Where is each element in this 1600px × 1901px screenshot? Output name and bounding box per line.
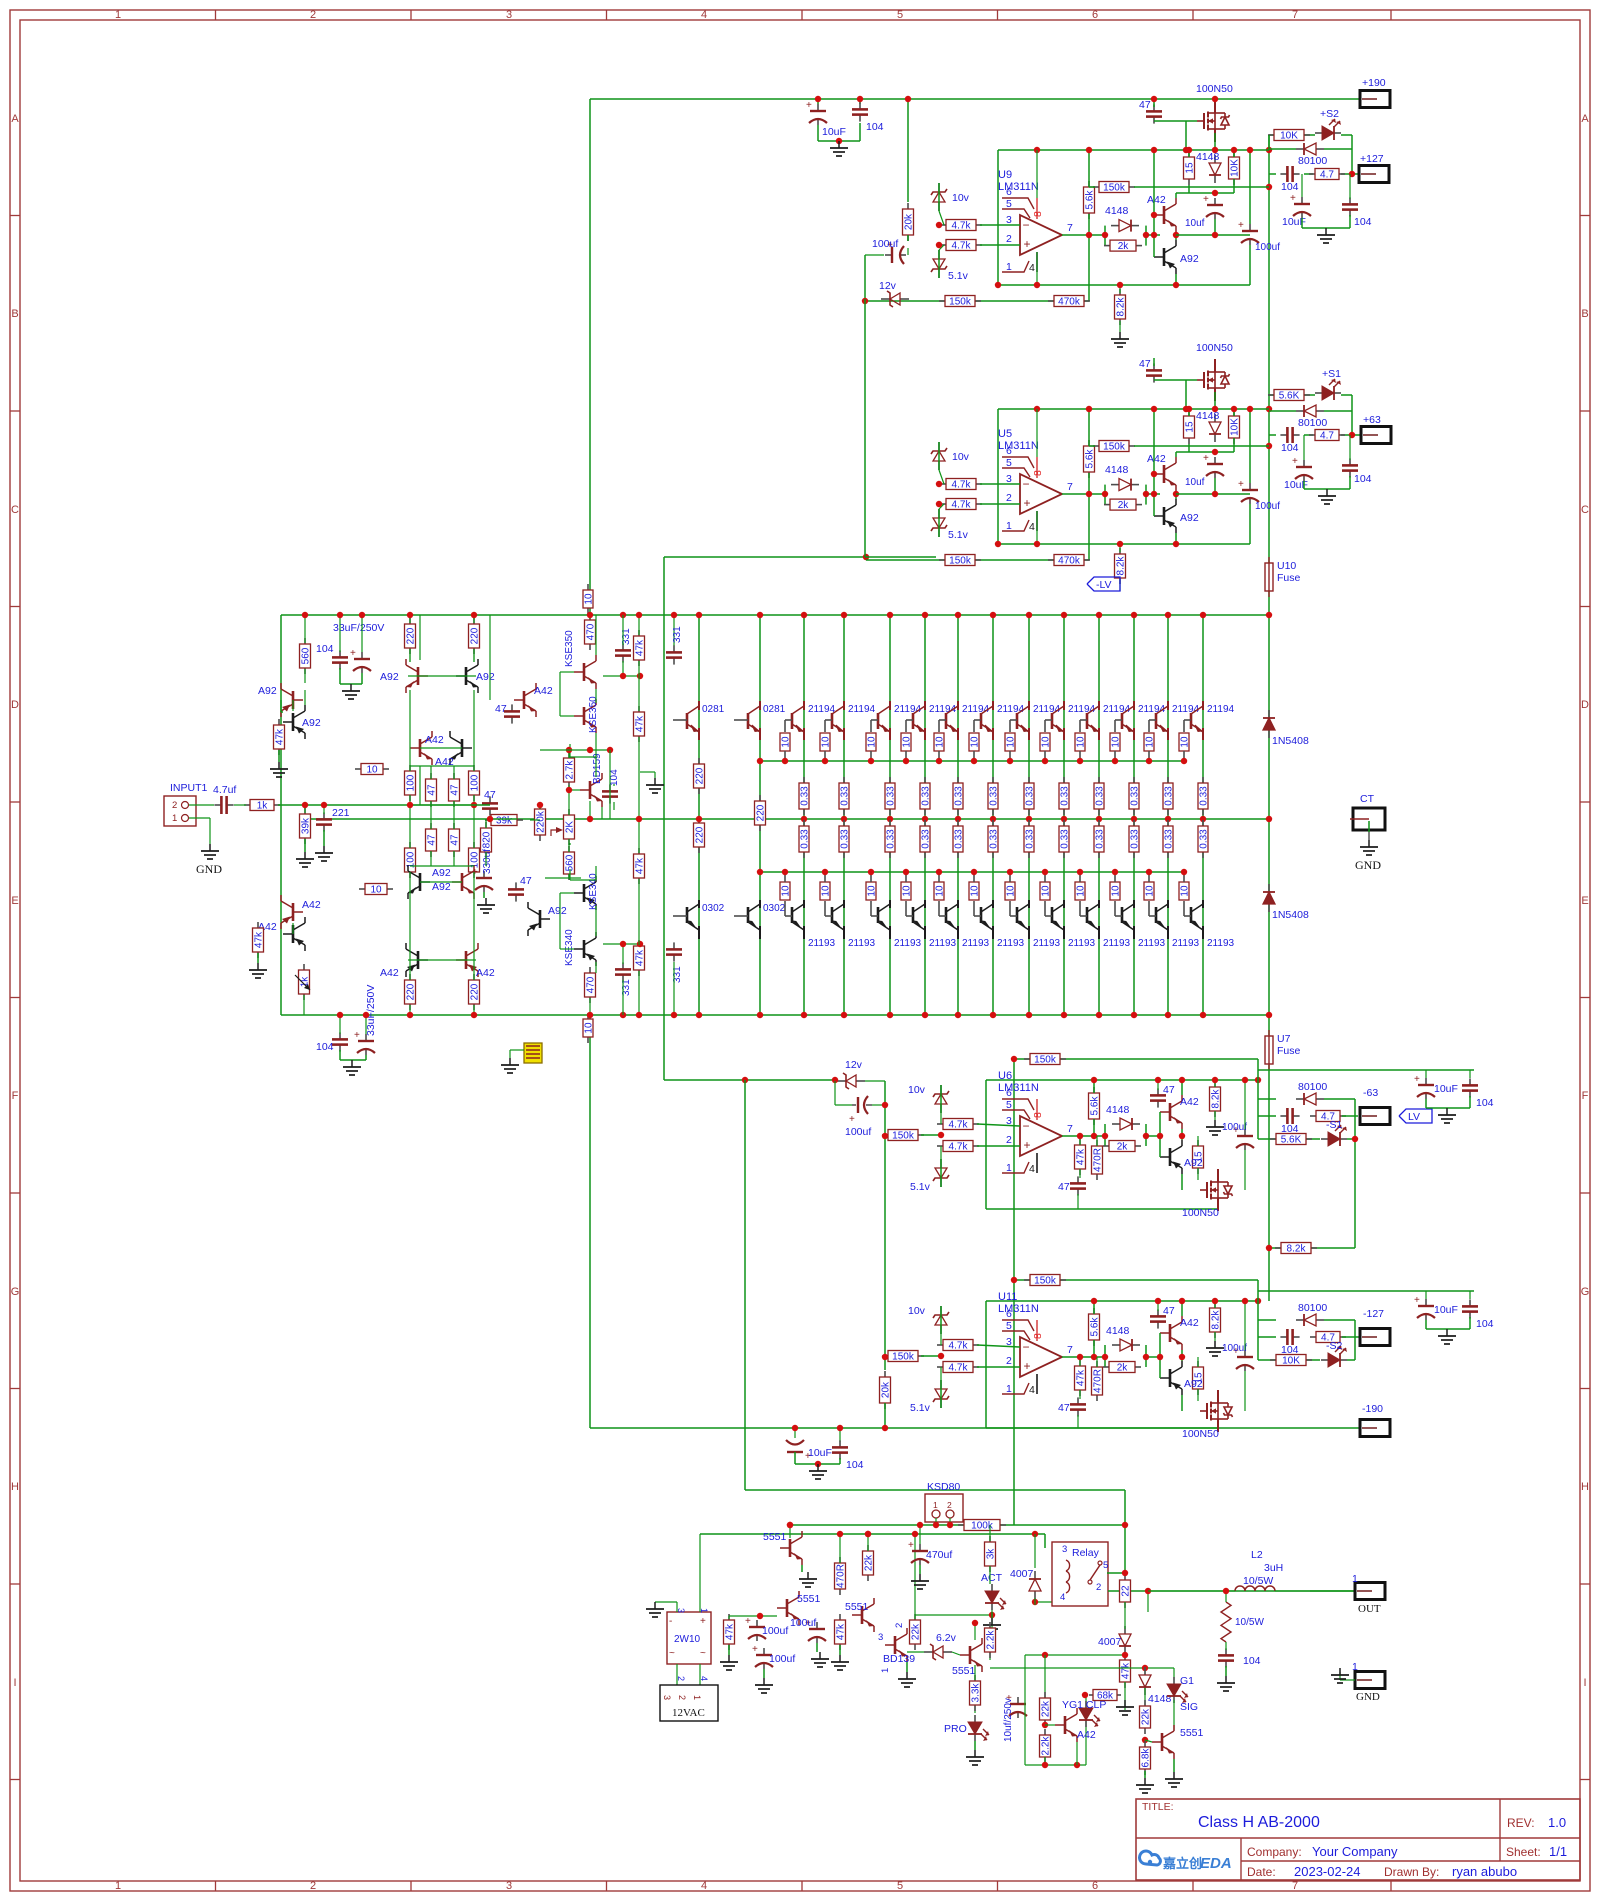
svg-text:7: 7 bbox=[1067, 1123, 1073, 1135]
wire bbox=[560, 671, 574, 673]
svg-text:4007: 4007 bbox=[1010, 1568, 1034, 1580]
wire bbox=[1063, 615, 1065, 1015]
wire bbox=[1301, 218, 1303, 228]
wire bbox=[1147, 1591, 1149, 1612]
svg-text:A42: A42 bbox=[380, 967, 399, 979]
svg-text:220: 220 bbox=[406, 983, 417, 1000]
svg-text:220: 220 bbox=[695, 826, 706, 843]
svg-text:10: 10 bbox=[1145, 885, 1156, 897]
wire bbox=[1062, 1356, 1105, 1358]
wire bbox=[304, 805, 306, 813]
polarized capacitor bbox=[763, 1648, 765, 1655]
wire bbox=[1093, 1301, 1095, 1314]
junction bbox=[822, 758, 828, 764]
wire bbox=[974, 1623, 976, 1640]
wire bbox=[1202, 615, 1204, 1015]
ground bbox=[350, 684, 352, 691]
wire bbox=[1045, 1724, 1055, 1726]
polarized capacitor bbox=[885, 254, 892, 256]
resistor 0.33 bbox=[889, 820, 891, 826]
transistor A42 bbox=[406, 943, 428, 977]
svg-text:+: + bbox=[745, 1616, 751, 1627]
junction bbox=[1102, 491, 1108, 497]
polarized capacitor 100uf left U6 bbox=[857, 1097, 859, 1113]
junction bbox=[1212, 491, 1218, 497]
ground bbox=[257, 963, 259, 970]
junction bbox=[1026, 612, 1032, 618]
wire bbox=[790, 1524, 1125, 1526]
junction bbox=[990, 816, 996, 822]
relay contact bbox=[1090, 1565, 1100, 1580]
junction bbox=[587, 612, 593, 618]
wire bbox=[1077, 1194, 1079, 1209]
junction bbox=[620, 1012, 626, 1018]
resistor 10 col10 bottom bbox=[1115, 915, 1122, 917]
svg-text:21193: 21193 bbox=[1033, 938, 1061, 949]
diode 4148 bbox=[1111, 225, 1119, 227]
svg-text:3: 3 bbox=[662, 1695, 672, 1700]
svg-text:5: 5 bbox=[1006, 457, 1012, 469]
wire bbox=[818, 140, 860, 142]
svg-text:10K: 10K bbox=[1280, 131, 1298, 142]
wire bbox=[1157, 1080, 1159, 1090]
svg-text:22: 22 bbox=[1121, 1585, 1132, 1597]
polarized capacitor bbox=[816, 1622, 818, 1629]
junction bbox=[787, 1522, 793, 1528]
wire bbox=[473, 872, 475, 980]
capacitor bbox=[1077, 1176, 1079, 1183]
junction bbox=[1255, 1077, 1261, 1083]
junction bbox=[922, 1012, 928, 1018]
capacitor bbox=[1157, 1088, 1159, 1095]
wire bbox=[622, 615, 624, 645]
svg-text:1N5408: 1N5408 bbox=[1272, 909, 1309, 921]
ground bbox=[1368, 840, 1370, 847]
wire bbox=[409, 649, 411, 662]
resistor 10 col6 top bbox=[974, 719, 981, 721]
svg-text:A92: A92 bbox=[1180, 512, 1199, 524]
fuse U7 bbox=[1268, 1030, 1270, 1070]
transistor NPN bbox=[1055, 1708, 1077, 1742]
svg-text:150k: 150k bbox=[892, 1352, 915, 1363]
junction bbox=[1077, 758, 1083, 764]
polarized capacitor bbox=[483, 871, 485, 878]
svg-text:A42: A42 bbox=[1180, 1317, 1199, 1329]
resistor 15 bbox=[1197, 1361, 1199, 1367]
wire bbox=[420, 881, 462, 883]
svg-text:+: + bbox=[1023, 496, 1030, 510]
wire bbox=[1233, 409, 1235, 416]
resistor 10 bbox=[905, 881, 907, 883]
junction bbox=[1352, 1136, 1358, 1142]
wire bbox=[998, 408, 1269, 410]
resistor 10 bbox=[1148, 732, 1150, 734]
svg-text:7: 7 bbox=[1292, 1880, 1298, 1892]
wire bbox=[1181, 1350, 1183, 1361]
transistor 21193 bbox=[912, 907, 915, 923]
svg-text:104: 104 bbox=[1281, 181, 1299, 193]
svg-text:22k: 22k bbox=[1041, 1700, 1052, 1717]
svg-text:+: + bbox=[752, 1644, 758, 1655]
svg-text:10: 10 bbox=[867, 736, 878, 748]
wire bbox=[1175, 193, 1177, 198]
svg-text:C: C bbox=[11, 504, 19, 516]
svg-text:A: A bbox=[11, 113, 19, 125]
wire bbox=[589, 1036, 591, 1428]
junction bbox=[955, 612, 961, 618]
wire bbox=[940, 1306, 942, 1334]
svg-text:A92: A92 bbox=[1180, 253, 1199, 265]
junction bbox=[1086, 147, 1092, 153]
wire bbox=[1302, 227, 1350, 229]
resistor 10 col1 top bbox=[785, 719, 792, 721]
svg-text:10: 10 bbox=[902, 736, 913, 748]
svg-text:8: 8 bbox=[1032, 1112, 1044, 1118]
wire bbox=[1349, 174, 1351, 199]
svg-text:470k: 470k bbox=[1058, 556, 1081, 567]
ground bbox=[1144, 1778, 1146, 1785]
junction bbox=[1091, 1133, 1097, 1139]
wire bbox=[473, 1005, 475, 1015]
junction bbox=[1091, 1298, 1097, 1304]
svg-text:D: D bbox=[1581, 699, 1589, 711]
resistor 8.2k bbox=[1275, 1247, 1281, 1249]
wire bbox=[568, 750, 570, 758]
svg-text:+: + bbox=[806, 100, 812, 111]
transistor A92 bbox=[456, 659, 478, 693]
wire bbox=[1268, 1015, 1270, 1035]
wire bbox=[1085, 1695, 1087, 1765]
svg-text:0.33: 0.33 bbox=[1130, 786, 1141, 806]
junction bbox=[1151, 406, 1157, 412]
svg-text:OUT: OUT bbox=[1358, 1603, 1381, 1615]
junction bbox=[1096, 612, 1102, 618]
wire bbox=[1354, 1099, 1356, 1139]
resistor 10 bbox=[1009, 732, 1011, 734]
ground bbox=[1446, 1329, 1448, 1336]
resistor 47 bbox=[453, 773, 455, 779]
svg-text:−: − bbox=[1022, 1340, 1029, 1354]
junction bbox=[1151, 96, 1157, 102]
svg-text:EDA: EDA bbox=[1200, 1855, 1232, 1872]
resistor 10 bbox=[1183, 732, 1185, 734]
transistor 21193 bbox=[1190, 907, 1193, 923]
transistor A42 bbox=[514, 683, 536, 717]
wire bbox=[1153, 150, 1155, 257]
resistor 47 bbox=[430, 773, 432, 779]
LED bbox=[1079, 1701, 1100, 1727]
svg-text:KSE350: KSE350 bbox=[564, 630, 575, 667]
junction bbox=[636, 1012, 642, 1018]
wire bbox=[997, 150, 999, 285]
svg-text:0.33: 0.33 bbox=[989, 829, 1000, 849]
wire bbox=[1062, 1135, 1105, 1137]
resistor 10 bbox=[587, 584, 589, 590]
svg-text:4.7k: 4.7k bbox=[952, 221, 972, 232]
wire bbox=[589, 1015, 591, 1036]
junction bbox=[587, 747, 593, 753]
resistor 0.33 bbox=[1063, 777, 1065, 783]
transistor A92 bbox=[406, 659, 428, 693]
junction bbox=[1034, 406, 1040, 412]
svg-text:TITLE:: TITLE: bbox=[1142, 1801, 1174, 1813]
wire bbox=[866, 300, 1089, 302]
wire bbox=[1119, 321, 1121, 332]
wire bbox=[1269, 410, 1296, 412]
svg-text:0.33: 0.33 bbox=[954, 829, 965, 849]
junction bbox=[938, 1132, 944, 1138]
polarized capacitor bbox=[1425, 1078, 1427, 1085]
wire bbox=[1144, 1688, 1146, 1705]
wire bbox=[1188, 444, 1190, 452]
svg-text:5.6k: 5.6k bbox=[1090, 1317, 1101, 1337]
svg-text:A92: A92 bbox=[432, 881, 451, 893]
svg-text:A92: A92 bbox=[258, 685, 277, 697]
polarized capacitor bbox=[365, 1034, 367, 1041]
transistor 21193 bbox=[831, 907, 834, 923]
resistor 10 bbox=[1009, 881, 1011, 883]
junction bbox=[1212, 1077, 1218, 1083]
resistor 0.33 bbox=[957, 820, 959, 826]
svg-text:2K: 2K bbox=[565, 821, 576, 834]
wire bbox=[1024, 1655, 1026, 1765]
svg-text:+127: +127 bbox=[1360, 153, 1384, 165]
svg-text:220: 220 bbox=[695, 767, 706, 784]
svg-text:21194: 21194 bbox=[1138, 704, 1166, 715]
wire bbox=[303, 995, 305, 1015]
svg-text:A92: A92 bbox=[380, 671, 399, 683]
svg-text:4148: 4148 bbox=[1106, 1104, 1130, 1116]
svg-text:B: B bbox=[11, 308, 18, 320]
wire bbox=[865, 556, 936, 558]
resistor 820 bbox=[485, 822, 487, 828]
wire bbox=[1134, 445, 1269, 447]
wire bbox=[794, 1452, 796, 1464]
wire bbox=[949, 1518, 951, 1525]
junction bbox=[1042, 869, 1048, 875]
wire bbox=[664, 556, 866, 558]
svg-text:104: 104 bbox=[1476, 1097, 1494, 1109]
svg-text:10: 10 bbox=[1111, 885, 1122, 897]
wire bbox=[1425, 1320, 1427, 1329]
transistor 21194 bbox=[1051, 713, 1054, 729]
svg-text:47k: 47k bbox=[1076, 1369, 1087, 1386]
junction bbox=[1034, 282, 1040, 288]
junction bbox=[841, 1012, 847, 1018]
svg-text:0281: 0281 bbox=[763, 704, 786, 715]
ground bbox=[1214, 1120, 1216, 1127]
wire bbox=[1062, 234, 1105, 236]
resistor 0.33 bbox=[1028, 777, 1030, 783]
resistor 0.33 bbox=[992, 820, 994, 826]
junction bbox=[1151, 471, 1157, 477]
junction bbox=[757, 758, 763, 764]
capacitor bbox=[339, 1032, 341, 1039]
svg-text:5.6k: 5.6k bbox=[1085, 449, 1096, 469]
resistor 3.3k bbox=[974, 1675, 976, 1681]
wire bbox=[839, 1428, 841, 1442]
junction bbox=[1061, 816, 1067, 822]
svg-text:10: 10 bbox=[1041, 885, 1052, 897]
wire bbox=[1303, 435, 1305, 460]
svg-text:ryan abubo: ryan abubo bbox=[1452, 1864, 1517, 1879]
junction bbox=[1186, 406, 1192, 412]
wire bbox=[1145, 1124, 1147, 1146]
wire bbox=[1044, 1757, 1046, 1765]
wire bbox=[490, 818, 517, 820]
svg-text:1: 1 bbox=[1006, 1383, 1012, 1395]
svg-text:5551: 5551 bbox=[1180, 1727, 1204, 1739]
svg-text:80100: 80100 bbox=[1298, 417, 1327, 429]
svg-text:1: 1 bbox=[1352, 1573, 1358, 1585]
wire bbox=[884, 1403, 886, 1428]
svg-text:10uf: 10uf bbox=[1185, 477, 1205, 488]
wire bbox=[952, 1652, 960, 1655]
svg-text:47: 47 bbox=[484, 789, 496, 801]
transistor A42 bbox=[283, 917, 305, 951]
wire bbox=[940, 1159, 942, 1187]
resistor 20k bbox=[907, 203, 909, 209]
junction bbox=[1034, 147, 1040, 153]
wire bbox=[1089, 186, 1095, 188]
wire bbox=[234, 804, 246, 806]
transistor NPN bbox=[580, 773, 602, 807]
svg-text:21193: 21193 bbox=[997, 938, 1025, 949]
wire bbox=[420, 804, 490, 806]
svg-text:100N50: 100N50 bbox=[1182, 1207, 1219, 1219]
svg-text:+: + bbox=[908, 1540, 914, 1551]
junction bbox=[1042, 1652, 1048, 1658]
ground bbox=[1124, 1700, 1126, 1707]
svg-text:-LV: -LV bbox=[1096, 579, 1112, 591]
svg-text:1: 1 bbox=[115, 1880, 121, 1892]
wire bbox=[278, 804, 420, 806]
terminal None bbox=[1355, 1583, 1385, 1600]
svg-text:A42: A42 bbox=[425, 734, 444, 746]
svg-text:21193: 21193 bbox=[1207, 938, 1235, 949]
junction bbox=[1212, 96, 1218, 102]
svg-text:10K: 10K bbox=[1282, 1356, 1300, 1367]
resistor 0.33 bbox=[1202, 820, 1204, 826]
junction bbox=[1122, 1652, 1128, 1658]
svg-text:2: 2 bbox=[1006, 1355, 1012, 1367]
svg-text:10: 10 bbox=[1180, 885, 1191, 897]
polarized capacitor bbox=[361, 652, 363, 659]
junction bbox=[1212, 406, 1218, 412]
junction bbox=[882, 1133, 888, 1139]
junction bbox=[1112, 869, 1118, 875]
svg-text:4.7uf: 4.7uf bbox=[213, 784, 236, 796]
resistor 0.33 bbox=[957, 777, 959, 783]
svg-text:5.6k: 5.6k bbox=[1085, 190, 1096, 210]
wire bbox=[1197, 1357, 1199, 1367]
wire bbox=[540, 749, 610, 751]
wire bbox=[595, 615, 597, 655]
svg-text:21194: 21194 bbox=[1103, 704, 1131, 715]
svg-text:B: B bbox=[1581, 308, 1588, 320]
svg-text:331: 331 bbox=[672, 626, 683, 643]
resistor 10 col1 bottom bbox=[785, 915, 792, 917]
wire bbox=[569, 744, 571, 757]
wire bbox=[977, 1366, 1020, 1368]
svg-text:10: 10 bbox=[935, 885, 946, 897]
wire bbox=[1233, 438, 1235, 452]
resistor 39k bbox=[485, 819, 491, 821]
MOSFET 100N50 bbox=[1197, 100, 1230, 142]
net label -LV bbox=[1087, 577, 1120, 591]
transistor 5551 bbox=[1152, 1725, 1174, 1759]
svg-text:LM311N: LM311N bbox=[998, 440, 1039, 452]
wire bbox=[1062, 493, 1105, 495]
zener diode 5.1v bbox=[938, 250, 940, 259]
junction bbox=[1212, 190, 1218, 196]
junction bbox=[337, 612, 343, 618]
junction bbox=[1061, 1012, 1067, 1018]
resistor 220 bbox=[698, 758, 700, 764]
wire bbox=[1214, 1332, 1216, 1341]
LED +S2 bbox=[1315, 119, 1341, 140]
junction bbox=[1179, 1077, 1185, 1083]
svg-text:0.33: 0.33 bbox=[921, 786, 932, 806]
junction bbox=[947, 1522, 953, 1528]
svg-text:330uf: 330uf bbox=[482, 849, 493, 874]
wire bbox=[989, 1652, 991, 1660]
transistor A42 bbox=[1160, 1095, 1182, 1129]
resistor 20k bbox=[884, 1371, 886, 1377]
svg-text:22k: 22k bbox=[864, 1554, 875, 1571]
junction bbox=[1151, 232, 1157, 238]
wire bbox=[1268, 135, 1270, 563]
wire bbox=[817, 99, 819, 104]
svg-text:104: 104 bbox=[1281, 442, 1299, 454]
svg-text:+: + bbox=[1238, 220, 1244, 231]
svg-text:3uH: 3uH bbox=[1264, 1562, 1283, 1574]
transistor PNP bbox=[574, 932, 596, 966]
wire bbox=[1354, 1320, 1356, 1360]
wire bbox=[866, 559, 1089, 561]
svg-text:4148: 4148 bbox=[1105, 205, 1129, 217]
svg-text:U11: U11 bbox=[998, 1291, 1017, 1303]
wire bbox=[1426, 1328, 1470, 1330]
svg-text:21194: 21194 bbox=[962, 704, 990, 715]
junction bbox=[1142, 1665, 1148, 1671]
transistor A42 bbox=[456, 943, 478, 977]
svg-text:+: + bbox=[1203, 453, 1209, 464]
wire bbox=[570, 756, 596, 758]
svg-text:10: 10 bbox=[867, 885, 878, 897]
svg-text:0.33: 0.33 bbox=[921, 829, 932, 849]
svg-text:10uF: 10uF bbox=[1434, 1304, 1458, 1316]
wire bbox=[1257, 1059, 1259, 1099]
wire bbox=[986, 1427, 1218, 1429]
junction bbox=[1242, 1077, 1248, 1083]
wire bbox=[609, 750, 611, 819]
diode bbox=[1268, 710, 1270, 718]
junction bbox=[1151, 491, 1157, 497]
transistor A92 bbox=[1154, 499, 1176, 533]
wire bbox=[760, 871, 1184, 873]
transistor A42 bbox=[450, 731, 472, 765]
transistor 21193 bbox=[1016, 907, 1019, 923]
svg-text:47k: 47k bbox=[275, 728, 286, 745]
svg-text:1.0: 1.0 bbox=[1548, 1815, 1566, 1830]
junction bbox=[1077, 1133, 1083, 1139]
svg-text:104: 104 bbox=[846, 1459, 864, 1471]
svg-text:7: 7 bbox=[1067, 481, 1073, 493]
wire bbox=[940, 1380, 942, 1408]
wire bbox=[589, 615, 591, 619]
svg-text:2.2k: 2.2k bbox=[1041, 1736, 1052, 1756]
